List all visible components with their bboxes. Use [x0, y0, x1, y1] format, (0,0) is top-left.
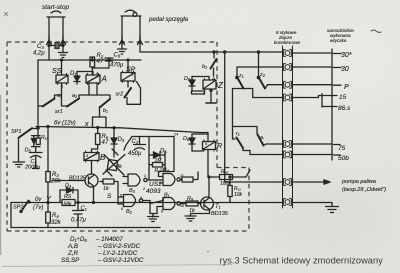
wire rail A	[38, 59, 141, 61]
svg-text:13: 13	[160, 168, 164, 172]
relay B	[84, 153, 99, 161]
svg-text:b₂: b₂	[202, 64, 208, 70]
pushbutton pedal sprzegla	[120, 10, 143, 44]
svg-text:5: 5	[205, 142, 207, 146]
svg-text:0v: 0v	[35, 197, 42, 203]
harness bus	[331, 49, 333, 160]
svg-text:konektorowe: konektorowe	[274, 40, 300, 45]
resistor R4 32k	[46, 202, 51, 228]
contact a	[233, 127, 267, 146]
relay SP	[121, 59, 135, 81]
svg-text:SS,SP: SS,SP	[61, 257, 80, 264]
svg-text:5: 5	[120, 194, 122, 198]
contact z2	[257, 51, 267, 89]
svg-text:470μ: 470μ	[110, 63, 124, 69]
svg-text:a.: a.	[260, 135, 265, 141]
ground	[59, 46, 68, 58]
ground T1	[185, 214, 196, 222]
svg-text:1M: 1M	[155, 158, 163, 164]
resistor R2 47	[90, 57, 95, 75]
svg-text:B₁: B₁	[164, 193, 170, 199]
wire bus	[224, 51, 226, 182]
resistor R8 1M	[149, 163, 165, 168]
capacitor C8	[92, 58, 113, 68]
relay A	[86, 72, 100, 84]
wire row 75	[266, 143, 283, 145]
contact z1	[233, 67, 253, 139]
ground	[118, 44, 127, 54]
svg-text:rys.3 Schemat ideowy zmoderniz: rys.3 Schemat ideowy zmodernizowany	[220, 256, 384, 266]
svg-text:4: 4	[140, 196, 142, 200]
svg-text:– GSV-2-12VDC: – GSV-2-12VDC	[97, 257, 144, 264]
pushbutton start-stop	[47, 11, 66, 45]
svg-text:10: 10	[180, 204, 184, 208]
capacitor C1	[73, 202, 84, 228]
connector pins	[284, 50, 292, 206]
svg-text:47: 47	[102, 140, 109, 146]
wire row 50b	[250, 154, 283, 156]
svg-text:R₁₃: R₁₃	[41, 135, 48, 141]
svg-text:R5: R5	[64, 194, 72, 200]
transistor T2 BD135	[52, 161, 98, 204]
svg-text:4k: 4k	[116, 164, 122, 170]
svg-text:B: B	[100, 153, 106, 162]
svg-text:z₂: z₂	[259, 72, 266, 78]
svg-text:2: 2	[202, 91, 205, 95]
relay pin stubs	[58, 71, 215, 163]
contact sr2	[125, 81, 141, 104]
svg-text:6: 6	[121, 207, 123, 211]
resistor out of B4	[180, 172, 198, 182]
contact SP1	[13, 127, 39, 167]
wire bottom rail	[11, 227, 160, 229]
capacitor C2 450u	[134, 137, 146, 150]
svg-text:R: R	[217, 143, 222, 150]
svg-text:B₃: B₃	[129, 188, 136, 194]
svg-text:32k: 32k	[51, 220, 62, 226]
svg-text:B₂: B₂	[126, 209, 133, 215]
svg-text:US1: US1	[149, 181, 162, 188]
svg-text:D₃: D₃	[118, 137, 125, 143]
svg-text:0,47μ: 0,47μ	[71, 218, 87, 224]
resistor R6 47	[92, 127, 100, 153]
wire C2 node	[124, 137, 174, 172]
svg-text:86.s: 86.s	[338, 105, 351, 112]
capacitor C4 2000u	[30, 147, 43, 169]
svg-text:5: 5	[61, 85, 63, 89]
svg-text:10k: 10k	[234, 192, 243, 198]
svg-text:3: 3	[86, 154, 88, 158]
relay R	[200, 133, 216, 178]
svg-text:R₄: R₄	[52, 213, 59, 219]
contact b2	[211, 51, 217, 76]
svg-text:Z,R: Z,R	[67, 250, 78, 257]
diode D5	[149, 137, 165, 181]
svg-text:– 1N4007: – 1N4007	[95, 236, 123, 243]
diode D1	[74, 72, 93, 85]
svg-text:R₁₀: R₁₀	[221, 169, 228, 175]
svg-text:T₁: T₁	[215, 204, 221, 210]
contact SP2	[11, 201, 30, 228]
svg-text:r₁: r₁	[236, 131, 240, 137]
svg-text:sr1: sr1	[55, 109, 63, 115]
svg-text:P: P	[344, 84, 349, 91]
plug junction dots	[48, 42, 141, 44]
wire rail 6V	[36, 127, 200, 133]
wire rail 0V Y	[11, 202, 283, 204]
capacitor C3	[48, 43, 64, 49]
svg-text:D₁÷D₈: D₁÷D₈	[70, 236, 87, 243]
svg-text:BD135: BD135	[211, 211, 229, 217]
svg-text:z₁: z₁	[238, 73, 244, 79]
svg-text:– LY-2-12VDC: – LY-2-12VDC	[97, 250, 138, 257]
svg-text:D₉: D₉	[184, 76, 191, 82]
scan crease line	[2, 265, 232, 267]
contact r1	[233, 138, 251, 155]
svg-text:8: 8	[162, 198, 164, 202]
svg-text:sr2: sr2	[116, 92, 124, 98]
svg-text:2: 2	[142, 187, 145, 191]
svg-text:pompa paliwa: pompa paliwa	[341, 179, 376, 185]
ground gates	[148, 204, 159, 222]
svg-text:b₁: b₁	[103, 108, 108, 114]
resistor R10 100k	[208, 170, 250, 180]
svg-text:R₃: R₃	[52, 172, 59, 178]
scan edge artifact	[0, 95, 1, 255]
svg-text:4093: 4093	[146, 188, 161, 195]
connector 8-pin column	[283, 46, 293, 208]
svg-text:9: 9	[161, 210, 163, 214]
svg-text:4: 4	[96, 72, 98, 76]
transistor T1 BD135	[193, 177, 214, 214]
svg-text:C₈: C₈	[114, 53, 121, 59]
svg-text:6v (12v): 6v (12v)	[54, 121, 76, 127]
svg-text:1k: 1k	[189, 208, 195, 214]
svg-text:15: 15	[339, 94, 347, 101]
diode D9	[189, 77, 209, 92]
svg-text:(besp.28 „Odwid"): (besp.28 „Odwid")	[342, 187, 386, 193]
svg-text:68k: 68k	[64, 201, 73, 207]
svg-text:BD135: BD135	[69, 176, 87, 182]
border dashed frame	[7, 42, 249, 231]
svg-text:D₁: D₁	[70, 71, 76, 77]
svg-text:450μ: 450μ	[128, 151, 142, 157]
nand gate B1	[150, 198, 180, 214]
svg-text:start-stop: start-stop	[42, 4, 69, 11]
svg-text:A,B: A,B	[67, 243, 78, 250]
diode D4 bypass	[60, 188, 78, 203]
wire step to rail	[93, 117, 107, 128]
svg-text:S: S	[107, 193, 112, 200]
svg-text:wtyczka: wtyczka	[330, 38, 347, 43]
relay SS	[56, 59, 68, 83]
contact a1 / sr1	[38, 95, 62, 107]
svg-text:D₄: D₄	[65, 183, 71, 189]
harness rows	[293, 53, 342, 155]
svg-text:1k: 1k	[103, 186, 109, 192]
resistor R9 1k	[180, 201, 201, 206]
resistor R11 10k	[228, 176, 232, 203]
trimmer scribble (crossed out)	[103, 149, 125, 176]
svg-text:a₂: a₂	[72, 93, 78, 99]
contact b1	[89, 83, 110, 117]
wire rail B	[140, 44, 283, 52]
nand gate B3	[123, 174, 163, 186]
wire row fuel pump	[225, 181, 283, 183]
svg-text:75: 75	[338, 145, 346, 152]
fuel pump arrow	[293, 180, 331, 184]
ground right	[293, 203, 339, 213]
svg-text:50b: 50b	[338, 155, 349, 162]
resistor R3 20k	[46, 126, 50, 203]
svg-text:R₉: R₉	[187, 196, 194, 202]
svg-text:SP1: SP1	[11, 129, 21, 135]
svg-text:4,2μ: 4,2μ	[33, 51, 45, 57]
svg-text:D₅: D₅	[160, 149, 167, 155]
svg-text:– GSV-2-5VDC: – GSV-2-5VDC	[97, 243, 141, 250]
svg-text:2000μ: 2000μ	[24, 165, 40, 171]
contact a2	[62, 83, 90, 107]
diode D6	[189, 134, 208, 151]
svg-text:A: A	[101, 75, 107, 84]
svg-text:D₈: D₈	[25, 148, 32, 154]
nand gate B2	[118, 195, 150, 207]
diode D8 + resistor	[31, 129, 40, 147]
svg-text:pedał sprzęgła: pedał sprzęgła	[148, 17, 189, 23]
svg-text:30*: 30*	[341, 52, 352, 59]
relay Z	[192, 77, 217, 104]
svg-text:100k: 100k	[220, 181, 231, 187]
svg-text:11: 11	[180, 174, 184, 178]
wire row 15	[253, 97, 283, 99]
svg-text:20k: 20k	[50, 179, 62, 185]
svg-text:x: x	[84, 121, 89, 128]
resistor R5 in rail	[62, 200, 75, 206]
resistor 1k gates	[100, 179, 118, 197]
svg-text:47: 47	[97, 59, 104, 65]
svg-text:C₂: C₂	[132, 139, 139, 145]
svg-text:SS: SS	[52, 68, 62, 75]
svg-text:14: 14	[174, 133, 178, 137]
stray pen mark	[371, 30, 381, 32]
svg-text:(7v): (7v)	[33, 205, 43, 211]
svg-text:1: 1	[144, 174, 146, 178]
wire	[48, 46, 50, 61]
svg-text:SP2: SP2	[13, 205, 23, 211]
svg-text:C₃: C₃	[37, 44, 44, 50]
wire row 30	[237, 66, 283, 68]
svg-text:a₁: a₁	[57, 93, 62, 99]
wire	[37, 60, 39, 127]
diode D3	[111, 127, 117, 157]
svg-text:D₆: D₆	[183, 136, 190, 142]
nand gate B4	[159, 172, 181, 186]
svg-text:C₁: C₁	[81, 206, 87, 212]
svg-text:30: 30	[341, 66, 349, 73]
wire row P	[268, 84, 283, 86]
svg-text:1: 1	[212, 77, 214, 81]
svg-text:5: 5	[131, 73, 133, 77]
